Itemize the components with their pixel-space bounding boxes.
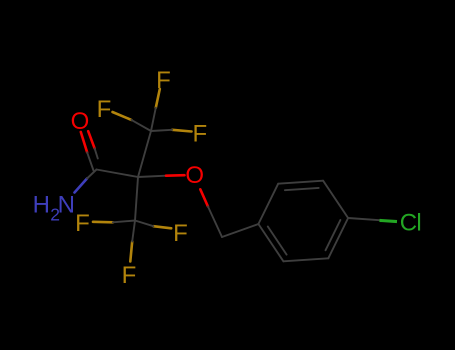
svg-text:Cl: Cl <box>400 209 421 236</box>
bond N-C(amide) gray half <box>87 170 97 179</box>
double bond C=O line2 red half <box>88 131 94 148</box>
bond F5-C(CF3 bottom) gray half <box>135 221 153 227</box>
bond F4-C(CF3 bottom) olive half <box>93 221 113 224</box>
bond F2-C(CF3 top) gray half <box>131 120 151 131</box>
svg-text:F: F <box>97 96 112 123</box>
bond C(central)-C(CF3 bottom) <box>135 177 138 221</box>
bond N-C(amide) blue half <box>75 179 88 193</box>
bond F3-C(CF3 top) olive half <box>172 130 191 132</box>
bond F6-C(CF3 bottom) olive half <box>130 242 132 262</box>
bond C4-Cl gray half <box>348 218 379 220</box>
bond C(central)-O(ether) red half <box>166 174 185 177</box>
ring inner double bond C4-C5 <box>326 220 341 250</box>
ring edge C4-C5 <box>328 218 348 258</box>
ring edge C1-C2 <box>258 184 278 224</box>
svg-text:H: H <box>33 192 50 219</box>
bond F4-C(CF3 bottom) gray half <box>113 221 135 223</box>
double bond C=O line1 red half <box>81 132 87 152</box>
bond F2-C(CF3 top) olive half <box>113 112 132 120</box>
double bond C=O line2 gray half <box>95 148 98 158</box>
bond F1-C(CF3 top) olive half <box>156 89 160 108</box>
bond C(central)-O(ether) gray half <box>138 176 166 177</box>
bond CH2-ring C1 <box>222 224 258 237</box>
svg-text:F: F <box>75 210 90 237</box>
bond O(ether)-CH2 gray half <box>208 206 222 237</box>
svg-text:O: O <box>71 108 90 135</box>
ring edge C6-C1 <box>258 224 283 261</box>
bond O(ether)-CH2 red half <box>200 189 208 206</box>
double bond C=O line1 gray half <box>87 152 93 170</box>
bond C(amide)-C(central) <box>97 170 139 178</box>
ring inner double bond C6-C1 <box>268 227 287 255</box>
svg-text:O: O <box>185 162 204 189</box>
ring edge C5-C6 <box>283 258 328 261</box>
bond F5-C(CF3 bottom) olive half <box>153 226 171 228</box>
ring edge C2-C3 <box>278 181 323 184</box>
svg-text:F: F <box>173 220 188 247</box>
svg-text:F: F <box>156 67 171 94</box>
bond F1-C(CF3 top) gray half <box>151 108 156 131</box>
bond F6-C(CF3 bottom) gray half <box>132 221 135 242</box>
bond F3-C(CF3 top) gray half <box>151 130 172 131</box>
bond C4-Cl green half <box>380 220 398 221</box>
svg-text:F: F <box>192 121 207 148</box>
bond C(central)-C(CF3 top) <box>138 131 151 177</box>
ring inner double bond C2-C3 <box>285 188 319 190</box>
ring edge C3-C4 <box>323 181 348 218</box>
svg-text:N: N <box>58 192 75 219</box>
svg-text:F: F <box>122 262 137 289</box>
